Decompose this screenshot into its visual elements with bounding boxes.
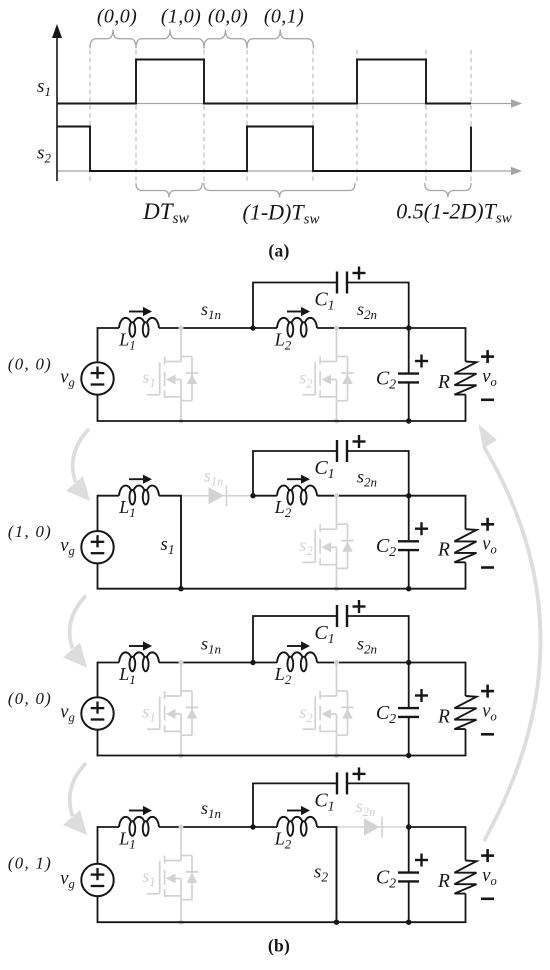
svg-text:vo: vo — [482, 702, 496, 724]
svg-text:(1,0): (1,0) — [161, 6, 201, 28]
svg-text:(0,1): (0,1) — [264, 6, 304, 28]
svg-text:s2n: s2n — [357, 299, 377, 322]
svg-text:s2: s2 — [299, 702, 313, 725]
svg-text:vo: vo — [482, 866, 496, 888]
svg-text:C2: C2 — [376, 368, 396, 393]
svg-text:(a): (a) — [268, 241, 289, 261]
svg-text:s1: s1 — [160, 534, 174, 557]
svg-text:0.5(1-2D)Tsw: 0.5(1-2D)Tsw — [396, 199, 511, 227]
svg-text:vg: vg — [60, 367, 74, 389]
svg-text:(1, 0): (1, 0) — [8, 522, 52, 541]
svg-text:R: R — [437, 372, 450, 393]
svg-text:C1: C1 — [314, 289, 334, 314]
svg-text:s1: s1 — [142, 866, 156, 889]
svg-text:C1: C1 — [314, 622, 334, 647]
svg-text:s1n: s1n — [201, 798, 221, 821]
svg-text:R: R — [437, 707, 450, 728]
svg-text:s2: s2 — [299, 368, 313, 391]
svg-text:DTsw: DTsw — [142, 199, 189, 227]
svg-text:vg: vg — [60, 869, 74, 891]
svg-text:s2: s2 — [314, 862, 328, 885]
svg-text:(0,0): (0,0) — [97, 6, 137, 28]
svg-text:vo: vo — [482, 367, 496, 389]
svg-text:C1: C1 — [314, 789, 334, 814]
svg-text:s1n: s1n — [201, 634, 221, 657]
svg-text:C2: C2 — [376, 867, 396, 892]
svg-text:s1: s1 — [37, 76, 51, 99]
svg-text:R: R — [437, 540, 450, 561]
svg-text:s1n: s1n — [204, 466, 224, 489]
svg-text:vo: vo — [482, 535, 496, 557]
svg-text:vg: vg — [60, 536, 74, 558]
svg-text:s1: s1 — [142, 367, 156, 390]
svg-text:(0, 1): (0, 1) — [8, 854, 52, 873]
svg-text:s1: s1 — [142, 702, 156, 725]
svg-text:C2: C2 — [376, 702, 396, 727]
svg-text:s2n: s2n — [357, 634, 377, 657]
svg-text:(0, 0): (0, 0) — [8, 689, 52, 708]
svg-text:s2n: s2n — [356, 796, 376, 819]
svg-text:s2: s2 — [37, 143, 51, 166]
svg-text:(1-D)Tsw: (1-D)Tsw — [243, 200, 320, 228]
svg-text:s2n: s2n — [357, 467, 377, 490]
svg-text:R: R — [437, 871, 450, 892]
svg-text:(0,0): (0,0) — [208, 6, 248, 28]
svg-text:vg: vg — [60, 702, 74, 724]
svg-text:C2: C2 — [376, 535, 396, 560]
svg-text:(b): (b) — [268, 936, 290, 956]
svg-text:s1n: s1n — [201, 299, 221, 322]
svg-text:C1: C1 — [314, 457, 334, 482]
svg-text:s2: s2 — [299, 535, 313, 558]
svg-text:(0, 0): (0, 0) — [8, 355, 52, 374]
